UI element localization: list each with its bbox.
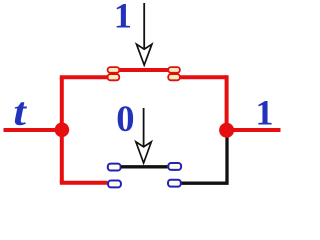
wire: top switch bridge bar (closed contact) — [119, 68, 169, 72]
node: right junction — [219, 123, 234, 138]
switch X0 contact lower-right — [168, 180, 181, 187]
wire: top rail right segment — [180, 75, 227, 79]
switch X1 contact lower-left — [108, 74, 120, 80]
wire: output stub to 1 — [227, 128, 281, 132]
wire: top rail left segment — [60, 75, 108, 79]
switch X0 contact upper-left — [108, 164, 121, 171]
arrow: control input 1 shaft — [143, 3, 145, 49]
arrow: control input 1 head — [137, 44, 152, 65]
switch X0 contact lower-left — [108, 181, 121, 188]
svg-text:1: 1 — [256, 93, 274, 133]
wire: black output of open switch — [182, 137, 228, 184]
svg-text:1: 1 — [114, 0, 132, 35]
wire: bottom switch bridge bar (open, black) — [121, 165, 167, 168]
wire: input stub from t — [4, 128, 63, 132]
arrow: control input 0 head — [136, 142, 151, 163]
wire: right vertical red (top branch to node) — [225, 75, 229, 130]
svg-text:0: 0 — [116, 98, 134, 139]
wire: left vertical branch — [60, 77, 64, 182]
node: left junction — [55, 123, 70, 138]
switch X1 contact upper-left — [108, 67, 120, 73]
switch X1 contact upper-right — [168, 67, 180, 73]
svg-text:t: t — [13, 89, 28, 134]
wire: bottom rail red segment — [60, 181, 108, 185]
arrow: control input 0 shaft — [143, 108, 145, 147]
switch X1 contact lower-right — [168, 74, 180, 80]
switch X0 contact upper-right — [168, 163, 181, 170]
